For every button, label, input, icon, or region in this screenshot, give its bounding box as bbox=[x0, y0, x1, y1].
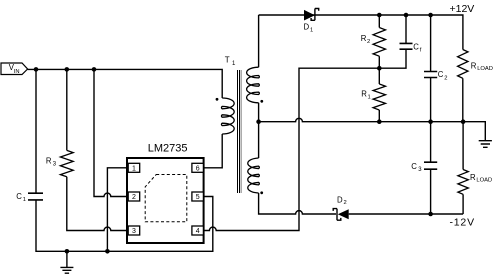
svg-text:2: 2 bbox=[444, 76, 447, 82]
svg-text:R: R bbox=[361, 34, 367, 43]
svg-text:R: R bbox=[471, 62, 477, 71]
svg-text:D: D bbox=[337, 195, 343, 204]
svg-text:C: C bbox=[411, 162, 417, 171]
svg-text:+12V: +12V bbox=[450, 3, 475, 15]
svg-text:1: 1 bbox=[310, 27, 313, 33]
svg-text:2: 2 bbox=[132, 194, 136, 201]
svg-text:2: 2 bbox=[344, 200, 347, 206]
svg-text:IN: IN bbox=[14, 69, 20, 75]
svg-text:LM2735: LM2735 bbox=[148, 143, 188, 155]
svg-text:3: 3 bbox=[132, 228, 136, 235]
svg-text:T: T bbox=[225, 55, 230, 64]
svg-text:6: 6 bbox=[196, 165, 200, 172]
svg-text:4: 4 bbox=[196, 228, 200, 235]
svg-text:1: 1 bbox=[23, 197, 26, 203]
svg-text:5: 5 bbox=[196, 194, 200, 201]
svg-text:1: 1 bbox=[132, 165, 136, 172]
svg-text:2: 2 bbox=[367, 39, 370, 45]
svg-text:R: R bbox=[470, 173, 476, 182]
svg-text:R: R bbox=[46, 156, 52, 165]
svg-text:C: C bbox=[438, 70, 444, 79]
svg-text:1: 1 bbox=[368, 94, 371, 100]
svg-text:LOAD: LOAD bbox=[476, 177, 492, 183]
svg-text:-12V: -12V bbox=[450, 217, 475, 229]
svg-text:D: D bbox=[304, 23, 310, 32]
svg-text:C: C bbox=[413, 43, 419, 52]
svg-text:LOAD: LOAD bbox=[477, 66, 493, 72]
svg-text:C: C bbox=[16, 192, 22, 201]
svg-text:R: R bbox=[361, 90, 367, 99]
